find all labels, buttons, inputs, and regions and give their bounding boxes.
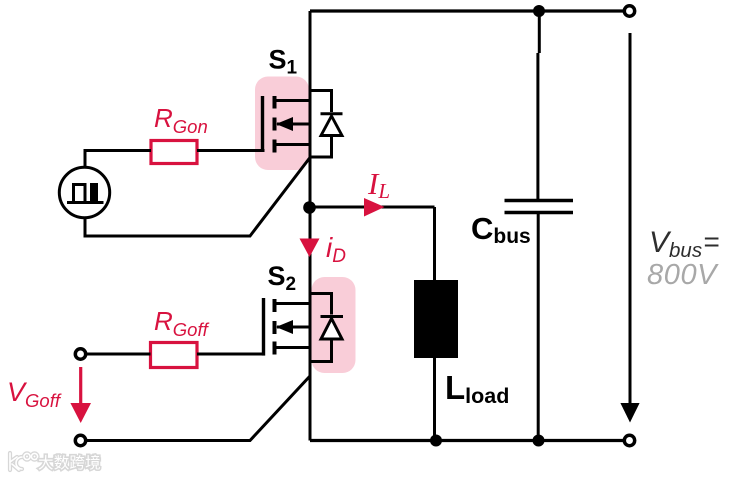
wire: bottom rail [310, 439, 625, 442]
junction: bottom rail / L_load [430, 435, 442, 447]
S2 source stub [275, 346, 311, 349]
highlight S2 [312, 277, 356, 373]
arrow i_D [300, 239, 320, 258]
svg-text:IL: IL [367, 166, 390, 203]
diode: S2 body diode [310, 294, 343, 362]
svg-text:VGoff: VGoff [7, 377, 62, 411]
pulse icon first pulse [74, 185, 86, 204]
svg-text:iD: iD [326, 232, 346, 267]
svg-text:=: = [704, 226, 720, 257]
svg-text:S1: S1 [269, 45, 298, 79]
source: double pulse generator [59, 167, 109, 217]
S2 drain stub [275, 302, 311, 305]
svg-text:RGon: RGon [154, 103, 208, 137]
S2 channel tick source [273, 342, 277, 355]
svg-text:800V: 800V [647, 259, 719, 291]
wire: pulse source return [85, 158, 310, 237]
S1 gate bar [261, 96, 264, 152]
diode: S1 body diode [310, 91, 343, 158]
S1 channel tick source [273, 140, 277, 153]
svg-text:Cbus: Cbus [471, 211, 531, 248]
S2 body stub [277, 326, 310, 329]
transistor S1 (MOSFET) [263, 96, 311, 153]
svg-text:Lload: Lload [445, 369, 509, 408]
arrow V_bus (bus voltage measurement) [620, 33, 639, 423]
S1 body arrow [276, 117, 293, 131]
wire: R_Goff to S2 gate [197, 353, 265, 356]
svg-text:RGoff: RGoff [154, 306, 210, 340]
arrow I_L [364, 198, 385, 217]
S1 channel tick drain [273, 96, 277, 109]
wire: C_bus lower lead [537, 214, 540, 441]
S1 body stub [277, 123, 310, 126]
junction: top rail / C_bus [533, 5, 545, 17]
terminal: V_Goff + [75, 349, 85, 359]
wire: R_Gon to S1 gate [197, 149, 265, 152]
terminal: V_bus - [624, 435, 634, 445]
terminal: V_bus + [624, 6, 634, 16]
svg-text:大数跨境: 大数跨境 [38, 453, 101, 472]
junction: switch node [303, 201, 316, 214]
capacitor C_bus [505, 201, 574, 213]
wire: V_Goff+ to R_Goff [86, 353, 151, 356]
transistor S2 (MOSFET) [264, 298, 311, 356]
resistor R_Goff [151, 343, 198, 368]
highlight S1 [255, 77, 309, 171]
S1 source stub [275, 143, 311, 146]
wire: switch node to load [310, 206, 435, 209]
pulse icon baseline [67, 201, 104, 204]
junction: bottom rail / C_bus [533, 435, 545, 447]
svg-text:Vbus: Vbus [649, 226, 702, 262]
S1 channel tick body [273, 118, 277, 131]
svg-text:S2: S2 [268, 261, 297, 295]
inductor L_load [414, 280, 458, 358]
wire: main vertical bus (S1 drain to S2 source) [309, 11, 312, 441]
pulse icon second pulse [90, 183, 98, 203]
S2 channel tick body [273, 321, 277, 334]
S2 channel tick drain [273, 299, 277, 312]
wire: load upper lead [433, 207, 436, 281]
S2 body arrow [276, 320, 293, 334]
watermark logo [10, 453, 38, 470]
arrow V_Goff [70, 367, 91, 423]
terminal: V_Goff - [75, 435, 85, 445]
wire: pulse source to R_Gon [85, 151, 151, 168]
wire: C_bus upper lead [538, 11, 541, 53]
wire: S2 kelvin source return [86, 376, 310, 441]
resistor R_Gon [151, 141, 197, 164]
wire: top rail [310, 9, 625, 12]
wire: load lower lead [433, 358, 436, 441]
S2 gate bar [262, 298, 265, 356]
S1 drain stub [275, 99, 311, 102]
